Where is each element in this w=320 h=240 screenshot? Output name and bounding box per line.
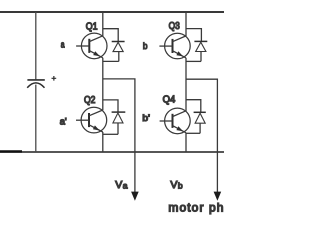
wire left leg upper (rail to Q1 collector) bbox=[102, 12, 104, 36]
transistor Q2 (NPN) bbox=[81, 107, 107, 133]
wire base lead of Q1 (node a) bbox=[76, 45, 89, 47]
node b' label bbox=[142, 113, 150, 124]
label Q1 bbox=[86, 22, 98, 33]
label Q3 bbox=[169, 21, 181, 32]
label Q4 bbox=[163, 95, 176, 106]
svg-text:b: b bbox=[178, 180, 183, 190]
label motor phases caption bbox=[168, 201, 223, 215]
svg-text:V: V bbox=[170, 179, 177, 191]
transistor Q3 (NPN) bbox=[165, 33, 191, 59]
wire base lead of Q2 (node a') bbox=[76, 119, 89, 121]
wire capacitor branch bottom lead bbox=[35, 85, 37, 152]
svg-text:Q1: Q1 bbox=[86, 22, 98, 33]
svg-text:Q2: Q2 bbox=[84, 95, 96, 106]
wire top positive rail bbox=[0, 11, 224, 13]
svg-text:b': b' bbox=[142, 113, 150, 124]
svg-text:a: a bbox=[61, 39, 65, 50]
label Vb bbox=[170, 179, 183, 191]
svg-text:a: a bbox=[123, 180, 128, 190]
wire phase tap b (to Vb arrow) bbox=[186, 79, 217, 192]
svg-text:Q3: Q3 bbox=[169, 21, 181, 32]
transistor Q4 (NPN) bbox=[165, 108, 191, 134]
label Q2 bbox=[84, 95, 96, 106]
wire right leg lower (Q4 emitter to bottom rail) bbox=[185, 133, 187, 152]
diode D4 (across Q4) with connecting stubs bbox=[186, 100, 206, 134]
wire phase tap a (to Va arrow) bbox=[103, 79, 135, 193]
wire left leg lower (Q2 emitter to bottom rail) bbox=[102, 132, 104, 152]
node b label bbox=[143, 41, 148, 52]
wire bottom negative rail bbox=[0, 150, 224, 153]
capacitor C1 (polarized, plates) bbox=[27, 80, 45, 88]
svg-text:Q4: Q4 bbox=[163, 95, 176, 106]
svg-text:b: b bbox=[143, 41, 148, 52]
svg-text:a': a' bbox=[60, 116, 67, 127]
wire right leg upper (rail to Q3 collector) bbox=[185, 12, 187, 36]
arrow Va (phase A output) bbox=[131, 192, 139, 201]
label + polarity of C1 bbox=[52, 76, 57, 81]
diode D2 (across Q2) with connecting stubs bbox=[103, 100, 126, 134]
wire left leg middle (Q1 emitter to Q2 collector) bbox=[102, 58, 104, 110]
diode D1 (across Q1) with connecting stubs bbox=[103, 29, 125, 62]
wire right leg middle (Q3 emitter to Q4 collector) bbox=[185, 58, 187, 111]
arrow Vb (phase B output) bbox=[214, 192, 222, 201]
svg-text:motor ph: motor ph bbox=[168, 201, 223, 215]
wire capacitor branch top lead bbox=[35, 12, 37, 79]
transistor Q1 (NPN) bbox=[81, 33, 107, 59]
wire base lead of Q4 (node b') bbox=[160, 120, 173, 122]
label Va bbox=[115, 179, 128, 191]
node a label bbox=[61, 39, 65, 50]
wire base lead of Q3 (node b) bbox=[159, 45, 172, 47]
node a' label bbox=[60, 116, 67, 127]
svg-text:V: V bbox=[115, 179, 122, 191]
diode D3 (across Q3) with connecting stubs bbox=[186, 29, 207, 62]
